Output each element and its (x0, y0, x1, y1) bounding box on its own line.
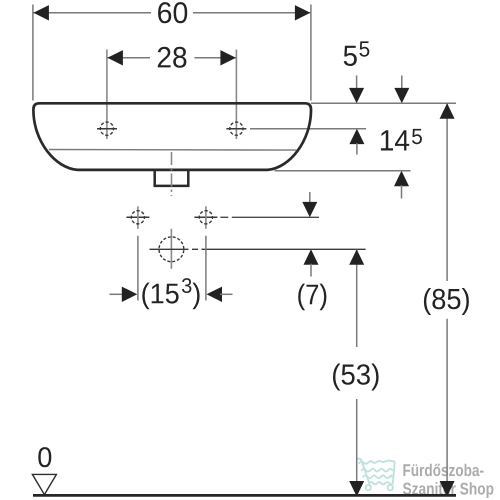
dim (53) line upper segment (356, 249, 358, 347)
extension line left of dim (15.3) (137, 236, 139, 301)
label 14.5 superscript (412, 129, 422, 144)
extension line right of dim (15.3) (205, 236, 207, 301)
extension line right of dim 28 / right tap hole centerline (235, 50, 237, 140)
dim (53) bottom arrowhead (down) (349, 481, 364, 497)
dim 5.5 upper arrow stem (356, 76, 358, 90)
dim 5.5 upper arrowhead (down) (349, 88, 364, 103)
drain trap rectangle (155, 171, 189, 186)
drain trap centerline (dash-dot) (171, 152, 173, 196)
drain hole dashed circle (159, 237, 184, 262)
extension line right of dim 60 (310, 5, 312, 101)
dimension line 60 left segment (34, 12, 152, 14)
arrowhead 60 right (295, 5, 311, 20)
dim (15.3) right arrow stem (220, 293, 233, 295)
dim 14.5 upper arrowhead (down) (394, 88, 409, 103)
floor line (33, 494, 456, 497)
fixing holes reference line (232, 216, 319, 218)
washbasin outline (front view) (33, 103, 311, 170)
dim (85) line upper segment (446, 103, 448, 281)
drain vertical centerline (170, 229, 172, 269)
reference line basin top edge extended right (311, 102, 456, 104)
reference line basin bottom extended right (275, 170, 411, 172)
dimension line 28 left segment (108, 57, 151, 59)
extension line left of dim 28 / left tap hole centerline (106, 50, 108, 140)
dim (7) upper arrow stem (309, 192, 311, 204)
tap hole symbol left (97, 122, 117, 135)
dim 14.5 upper arrow stem (401, 76, 403, 90)
basin inner front edge line (49, 149, 297, 152)
label 0 (floor datum) (38, 447, 51, 467)
arrowhead 28 left (107, 50, 123, 65)
arrowhead 28 right (220, 50, 236, 65)
dim (53) top arrowhead (up) (349, 249, 364, 264)
extension line left of dim 60 (32, 5, 34, 101)
dim (15.3) left arrowhead (pointing right) (122, 287, 138, 302)
fixing hole symbol left (126, 206, 149, 229)
label (15.3) close paren (193, 283, 200, 310)
dimension line 28 right segment (195, 57, 236, 59)
label 5.5 superscript (359, 41, 369, 56)
dim (15.3) left arrow stem (110, 293, 125, 295)
dim (85) bottom arrowhead (down) (440, 481, 455, 497)
dim (85) top arrowhead (up) (440, 103, 455, 119)
label (53) (333, 364, 379, 391)
floor datum triangle (32, 474, 56, 494)
dim 14.5 lower arrow stem (401, 185, 403, 198)
dim (53) line lower segment (356, 399, 358, 495)
label (15.3) superscript 3 (182, 278, 191, 293)
watermark shopping-cart icon (357, 459, 395, 491)
dim (7) lower arrow stem (310, 264, 312, 277)
label 28 (158, 47, 187, 68)
dim (85) line lower segment (446, 319, 448, 495)
dim 5.5 lower arrow stem (356, 143, 358, 154)
dimension line 60 right segment (193, 12, 310, 14)
watermark text line 2 (403, 482, 494, 498)
tap hole symbol right (226, 122, 246, 135)
fixing hole symbol right (194, 206, 217, 229)
arrowhead 60 left (33, 5, 49, 20)
label (15.3) open paren and digits (142, 283, 178, 310)
drain horizontal centerline (150, 248, 366, 250)
label (7) (298, 284, 326, 311)
dim 5.5 lower arrowhead (up) (349, 129, 364, 144)
label 14.5 main digits (381, 130, 409, 150)
label 5.5 main digit (344, 46, 357, 66)
dim 14.5 lower arrowhead (up) (394, 171, 409, 186)
label (85) (424, 288, 469, 315)
fixing holes reference line dash (220, 216, 228, 218)
label 60 (158, 2, 187, 23)
dim (7) upper arrowhead (down) (302, 202, 317, 217)
watermark text line 1 (403, 464, 483, 477)
dim (15.3) right arrowhead (pointing left) (207, 287, 223, 302)
reference line tap holes extended right (250, 128, 366, 130)
dim (7) lower arrowhead (up) (304, 249, 319, 264)
